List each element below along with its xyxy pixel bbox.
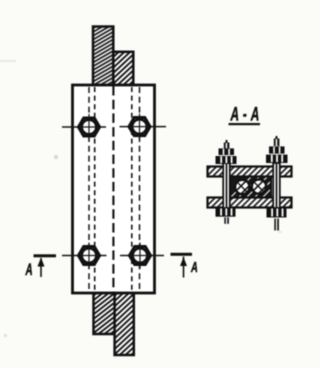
upper bar (left, tall) [93, 27, 113, 86]
label A-A [229, 105, 264, 125]
horizontal centerline upper row [62, 126, 166, 128]
section bolt left: upper nut [219, 141, 235, 156]
upper bar (right, short) [113, 52, 133, 86]
top strip (plate in section) [208, 167, 292, 177]
faint scan noise [0, 60, 282, 337]
section mark right: letter A [190, 259, 198, 276]
section bolt right: upper nut [269, 137, 285, 154]
section bolt left: top stub [224, 140, 230, 149]
middle block (bars in section) [228, 176, 280, 202]
bolt centerline (left column) [88, 87, 90, 291]
cover plate [73, 85, 155, 293]
hidden edge line (left bar) [94, 87, 96, 291]
section bolt right: bottom stub [274, 219, 279, 231]
svg-text:A: A [25, 260, 33, 278]
bolt upper-left [79, 114, 100, 140]
hidden edge line (right bar) [131, 87, 133, 291]
section bolt right: shank [273, 163, 280, 208]
section mark right: bar [171, 253, 193, 278]
section bolt left: washer block [216, 156, 237, 164]
bolt lower-left [79, 243, 100, 269]
section bolt left: bottom nut [216, 208, 236, 216]
horizontal centerline lower row [62, 255, 164, 257]
lower bar (right, long) [115, 292, 134, 355]
bolt centerline (right column) [139, 87, 141, 291]
bottom strip (plate in section) [208, 198, 292, 208]
lower bar (left) [94, 292, 116, 334]
rod section circle 2 [251, 179, 269, 197]
section bolt left: bottom stub [224, 217, 229, 223]
section bolt right: bottom nut [267, 208, 287, 217]
section mark left: bar [34, 254, 57, 277]
svg-text:A-A: A-A [230, 105, 263, 125]
svg-text:A: A [190, 259, 198, 276]
bolt upper-right [129, 114, 150, 140]
section bolt left: shank [223, 163, 230, 208]
lap joint hidden line (center) [112, 86, 114, 292]
section bolt right: washer block [266, 155, 288, 163]
section bolt right: top stub [274, 136, 280, 146]
bolt lower-right [130, 243, 151, 269]
section mark left: letter A [25, 260, 33, 278]
rod section circle 1 [234, 179, 252, 197]
